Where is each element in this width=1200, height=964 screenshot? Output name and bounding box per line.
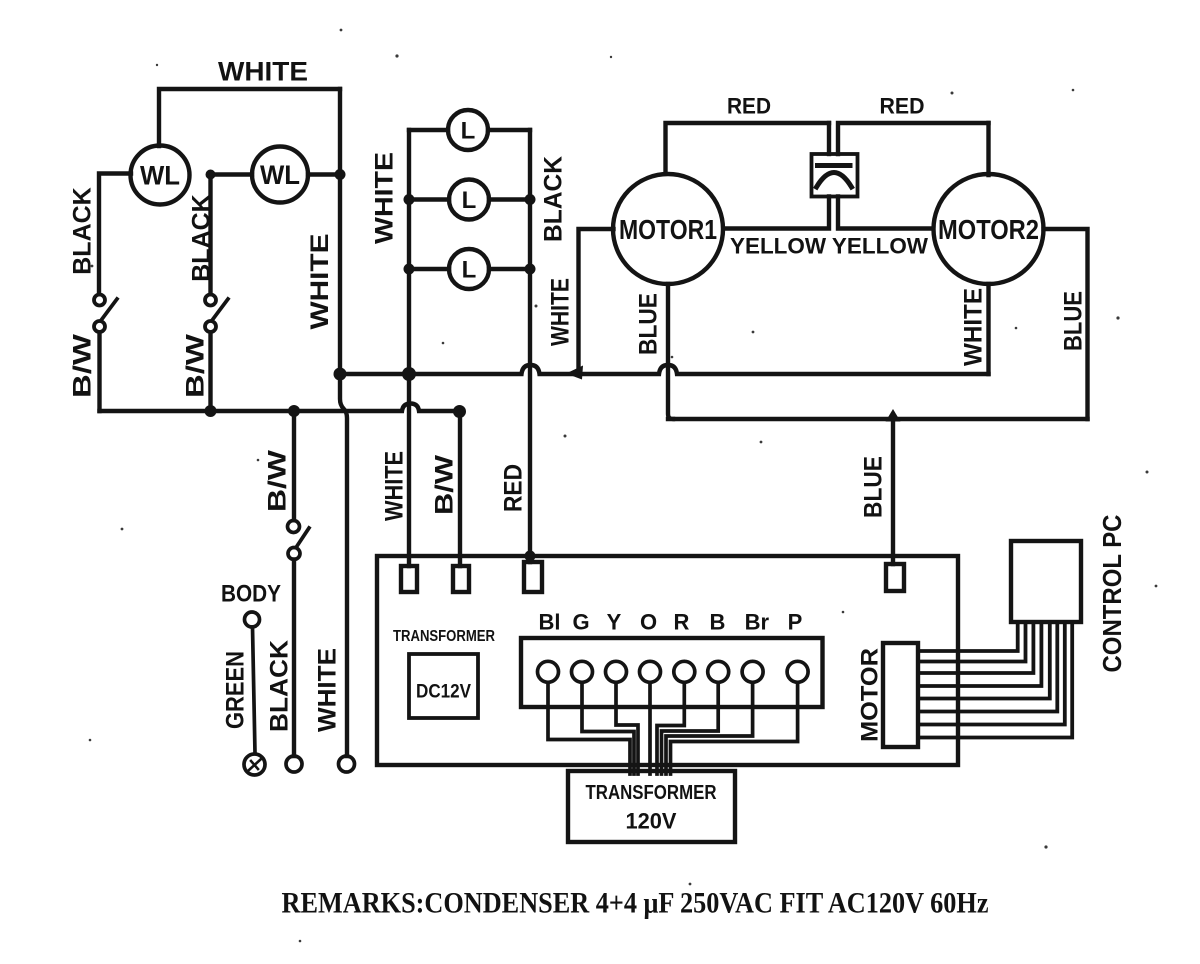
wire O to transformer [648, 683, 652, 775]
svg-text:WHITE: WHITE [371, 152, 399, 244]
svg-text:120V: 120V [626, 809, 677, 834]
svg-text:BLACK: BLACK [540, 156, 568, 242]
terminal lug b/w [453, 566, 469, 592]
wire WL2 left lead [211, 175, 253, 295]
lamp WL1 [131, 146, 190, 205]
svg-text:BLUE: BLUE [860, 456, 888, 518]
svg-text:Y: Y [607, 610, 622, 635]
wire motor1 blue lead [668, 284, 673, 419]
wire Y to transformer [616, 683, 638, 775]
motor M2 [934, 174, 1044, 284]
svg-text:L: L [461, 118, 476, 145]
junction WL2 right [335, 169, 346, 180]
switch S3 fixed contact [288, 521, 300, 533]
svg-text:O: O [640, 610, 657, 635]
junction white vertical on bus [334, 368, 347, 381]
wire L1 left lead [409, 128, 448, 132]
terminal G [572, 661, 593, 682]
wire WL2 right lead [308, 172, 340, 176]
wire L lamps left vertical [407, 130, 411, 566]
svg-text:G: G [572, 610, 589, 635]
wire motor2 white lead [986, 284, 990, 374]
switch S2 lever [213, 299, 228, 319]
wire motor2 blue lead [1044, 229, 1088, 419]
svg-text:WHITE: WHITE [218, 57, 308, 87]
connector motor plug [883, 643, 918, 747]
condenser C1 [812, 154, 858, 197]
wire yellow motor1 to condenser [724, 197, 830, 229]
wire Br to transformer [666, 683, 753, 775]
wire blue bottom bus [668, 417, 1088, 421]
svg-text:B/W: B/W [264, 450, 292, 512]
switch S1 fixed contact [94, 295, 105, 306]
switch S1 moving contact [94, 321, 105, 332]
wire blue tap to control box [891, 419, 895, 564]
svg-text:RED: RED [880, 94, 925, 119]
wire R to transformer [657, 683, 684, 775]
wire plug pin3 to control pc [918, 622, 1033, 673]
lamp L1 [448, 110, 488, 150]
wire L3 left lead [409, 267, 449, 271]
wire plug pin2 to control pc [918, 622, 1026, 662]
wire switch S1 to B/W bus [97, 333, 101, 412]
wire plug pin8 to control pc [918, 622, 1072, 738]
terminal B [708, 661, 729, 682]
svg-text:Bl: Bl [539, 610, 561, 635]
switch S1 lever [102, 299, 117, 319]
wire motor1 red lead [666, 123, 830, 174]
svg-text:BLUE: BLUE [635, 293, 663, 355]
wire B to transformer [662, 683, 719, 775]
wire white bus [340, 365, 989, 374]
svg-text:REMARKS:CONDENSER 4+4 μF 250V: REMARKS:CONDENSER 4+4 μF 250VAC FIT AC12… [282, 887, 989, 920]
switch S3 moving contact [288, 548, 300, 560]
condenser plate straight [818, 163, 851, 168]
svg-text:DC12V: DC12V [416, 682, 471, 703]
wire G to transformer [582, 683, 634, 775]
svg-text:R: R [674, 610, 690, 635]
svg-text:B: B [710, 610, 726, 635]
svg-text:B/W: B/W [69, 333, 97, 398]
junction red wire at box edge [525, 551, 536, 562]
wire plug pin7 to control pc [918, 622, 1065, 725]
svg-text:GREEN: GREEN [222, 651, 250, 729]
wire switch S2 to B/W bus [208, 333, 212, 412]
wire L3 right lead [489, 267, 530, 271]
svg-text:Br: Br [745, 610, 770, 635]
wire condenser left top lead [827, 123, 831, 154]
wire plug pin4 to control pc [918, 622, 1041, 686]
terminal Y [606, 661, 627, 682]
svg-text:CONTROL PC: CONTROL PC [1097, 514, 1127, 672]
terminal circle white bottom [339, 756, 355, 772]
wire B/W bus to terminal lug [458, 412, 462, 567]
wire plug pin6 to control pc [918, 622, 1057, 712]
svg-text:RED: RED [727, 94, 771, 119]
svg-text:WL: WL [140, 161, 180, 191]
junction L3 left [404, 264, 415, 275]
control box [377, 556, 958, 765]
control pc board [1011, 541, 1081, 622]
wire L2 right lead [489, 197, 530, 201]
terminal lug white [401, 566, 417, 592]
svg-text:WL: WL [260, 160, 300, 190]
lamp L2 [449, 180, 489, 220]
wire condenser right top lead [838, 123, 989, 154]
svg-text:WHITE: WHITE [381, 451, 409, 521]
junction L lamps vertical on bus [402, 367, 416, 381]
wire WL1 left lead [99, 174, 131, 295]
lamp L3 [449, 249, 489, 289]
wire white top bus [159, 89, 340, 146]
junction body switch on B/W bus [288, 405, 300, 417]
svg-text:BLUE: BLUE [1060, 291, 1088, 351]
junction arrow blue tap [886, 409, 901, 422]
transformer 120V box [568, 771, 735, 842]
wire motor2 red lead [986, 123, 990, 175]
wire B/W bus [100, 404, 460, 412]
junction L3 right [525, 264, 536, 275]
lamp WL2 [252, 147, 308, 203]
wire motor1 white lead [579, 229, 614, 369]
wire P to transformer [671, 683, 798, 775]
ground screw slot [249, 760, 261, 771]
svg-text:WHITE: WHITE [547, 278, 575, 346]
wire L1 right lead [488, 128, 530, 132]
svg-text:B/W: B/W [182, 333, 210, 398]
wire L lamps right vertical to RED terminal [528, 130, 532, 562]
condenser plate curved [817, 173, 852, 188]
svg-text:BLACK: BLACK [188, 194, 216, 282]
wire white long vertical [338, 89, 342, 374]
svg-text:WHITE: WHITE [306, 234, 334, 330]
svg-text:P: P [788, 610, 803, 635]
svg-text:BLACK: BLACK [69, 187, 97, 275]
wire plug pin5 to control pc [918, 622, 1050, 699]
svg-text:L: L [462, 257, 477, 284]
wire B/W bus to body switch [292, 411, 296, 520]
switch S2 fixed contact [205, 295, 216, 306]
terminal lug blue [886, 564, 904, 591]
svg-text:MOTOR: MOTOR [857, 648, 884, 742]
svg-text:BLACK: BLACK [266, 640, 294, 732]
terminal lug red [524, 562, 542, 592]
switch S2 moving contact [205, 321, 216, 332]
switch S3 lever [297, 528, 309, 546]
terminal P [787, 661, 808, 682]
junction arrow motor1 white on bus [566, 366, 583, 380]
terminal O [640, 661, 661, 682]
svg-text:RED: RED [500, 464, 528, 512]
svg-text:B/W: B/W [431, 455, 459, 515]
ground screw body [244, 754, 265, 775]
terminal Bl [538, 661, 559, 682]
junction B/W bus end [453, 405, 466, 418]
wire white vertical jog crossing B/W bus [340, 374, 347, 756]
terminal circle black bottom [286, 756, 302, 772]
svg-text:L: L [462, 187, 477, 214]
svg-text:WHITE: WHITE [960, 288, 988, 366]
svg-text:TRANSFORMER: TRANSFORMER [393, 628, 495, 645]
svg-text:YELLOW YELLOW: YELLOW YELLOW [730, 234, 928, 259]
junction WL2 branch tee [206, 170, 216, 180]
wire Bl to transformer [548, 683, 630, 775]
svg-text:WHITE: WHITE [314, 648, 342, 732]
svg-text:TRANSFORMER: TRANSFORMER [586, 782, 717, 804]
svg-text:BODY: BODY [221, 581, 281, 608]
svg-text:MOTOR1: MOTOR1 [619, 214, 717, 245]
junction L2 right [525, 194, 536, 205]
wire yellow condenser to motor2 [838, 197, 933, 229]
terminal Br [742, 661, 763, 682]
wire green body lead [253, 627, 256, 753]
wire L2 left lead [409, 197, 449, 201]
terminal R [674, 661, 695, 682]
wire switch S3 to black terminal [292, 560, 296, 757]
motor M1 [613, 174, 723, 284]
terminal strip [521, 638, 823, 707]
svg-text:MOTOR2: MOTOR2 [938, 214, 1039, 245]
junction S2 on B/W bus [205, 405, 217, 417]
transformer DC12V box [409, 654, 478, 718]
wire plug pin1 to control pc [918, 622, 1018, 651]
junction L2 left [404, 194, 415, 205]
body terminal circle [245, 612, 260, 627]
